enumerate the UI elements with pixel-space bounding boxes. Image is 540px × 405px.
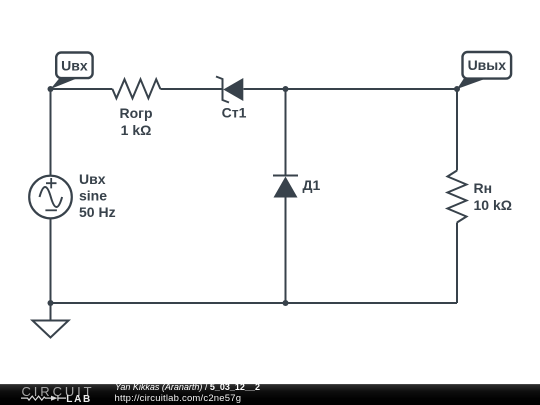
voltage source sine symbol: [40, 187, 63, 207]
ground symbol stub: [50, 303, 52, 321]
zener diode Ct1 cathode bar with ticks: [216, 77, 229, 103]
node flag Uvx box: [56, 53, 92, 79]
voltage source minus sign: [45, 209, 57, 211]
wire: left vertical from input node down to source V1 top: [50, 89, 52, 176]
junction dot ground middle: [283, 300, 289, 306]
svg-text:Д1: Д1: [303, 177, 321, 193]
ground symbol triangle: [33, 321, 69, 338]
resistor Rn (10 kOhm) vertical zigzag: [448, 171, 467, 223]
node flag Uvyx tail: [457, 78, 484, 89]
svg-text:Uвых: Uвых: [468, 57, 507, 73]
zener diode Ct1 triangle: [223, 78, 243, 101]
svg-text:LAB: LAB: [66, 394, 92, 405]
wire: middle vertical from top net to diode D1: [285, 89, 287, 176]
CircuitLab logo resistor zigzag: [21, 396, 51, 400]
diode D1 cathode bar: [273, 175, 298, 177]
junction dot top middle node: [283, 86, 289, 92]
svg-text:Ст1: Ст1: [222, 105, 247, 121]
wire: top horizontal from input node to resistor Rogr: [51, 88, 113, 90]
wire: left vertical from source bottom to ground rail: [50, 218, 52, 303]
svg-text:Rогр: Rогр: [119, 105, 152, 121]
CircuitLab logo diode symbol: [51, 396, 58, 401]
svg-text:Yan Kikkas (Aranarth) / 5_03_1: Yan Kikkas (Aranarth) / 5_03_12__2: [115, 382, 260, 392]
junction dot output node: [454, 86, 460, 92]
junction dot input node: [48, 86, 54, 92]
svg-text:1 kΩ: 1 kΩ: [121, 122, 152, 138]
svg-text:http://circuitlab.com/c2ne57g: http://circuitlab.com/c2ne57g: [115, 393, 242, 404]
svg-text:Uвх: Uвх: [61, 57, 88, 73]
svg-text:10 kΩ: 10 kΩ: [474, 197, 512, 213]
node flag Uvx tail: [51, 78, 77, 90]
junction dot ground left: [48, 300, 54, 306]
svg-text:sine: sine: [79, 188, 107, 204]
wire: bottom horizontal ground rail: [51, 302, 458, 304]
diode D1 triangle: [274, 177, 298, 198]
node flag Uvyx box: [463, 52, 512, 79]
voltage source plus sign: [46, 178, 57, 188]
resistor Rogr (1 kOhm) zigzag: [112, 79, 160, 98]
svg-text:Rн: Rн: [474, 180, 493, 196]
voltage source V1 circle: [29, 176, 72, 219]
svg-text:50 Hz: 50 Hz: [79, 204, 116, 220]
wire: right vertical from resistor Rn to ground rail: [456, 223, 458, 304]
wire: middle vertical from diode D1 to ground rail: [285, 198, 287, 304]
svg-text:Uвх: Uвх: [79, 171, 106, 187]
wire: right vertical from output node to resistor Rn: [456, 89, 458, 171]
wire: top horizontal from resistor Rogr to zener Ct1: [160, 88, 222, 90]
wire: top horizontal from zener Ct1 to output node: [244, 88, 458, 90]
